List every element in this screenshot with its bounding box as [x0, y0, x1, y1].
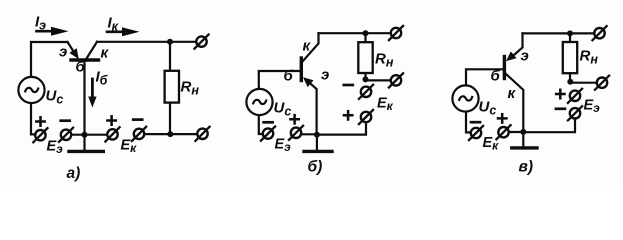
- battery E_к: - terminal: [132, 127, 146, 141]
- battery E_э (b): minus sign: [264, 121, 273, 124]
- transistor VT1: emitter lead (diagonal): [68, 42, 75, 53]
- battery E_э (v): + terminal: [568, 89, 582, 103]
- svg-text:к: к: [101, 45, 110, 62]
- output terminal middle (b): [389, 73, 403, 87]
- transistor VT1: emitter arrowhead (pnp, points to base): [69, 48, 78, 59]
- wire: v, top rail emitter to terminal: [523, 32, 595, 34]
- wire: a, collector to top-right terminal: [97, 41, 196, 43]
- ground symbol (circuit v): [522, 132, 524, 147]
- battery E_к: + terminal: [105, 127, 119, 141]
- junction: top of load resistor: [167, 39, 173, 45]
- svg-text:б): б): [308, 159, 323, 176]
- svg-text:Ек: Ек: [377, 96, 394, 114]
- ground symbol (circuit b): [316, 135, 318, 150]
- svg-text:Еэ: Еэ: [275, 137, 292, 155]
- junction: R_н bottom / output tap (v): [567, 79, 573, 85]
- transistor VT3: collector lead down: [506, 74, 524, 132]
- wire: a, below AC source down to bottom rail: [31, 103, 35, 134]
- resistor R_н: bottom stem: [169, 103, 171, 135]
- transistor VT1: base bar: [71, 58, 99, 61]
- svg-text:Еэ: Еэ: [584, 98, 601, 116]
- battery E_к: plus sign: [107, 116, 115, 124]
- battery E_э: minus sign: [61, 119, 70, 122]
- battery E_э (v): plus sign: [556, 90, 564, 98]
- transistor VT2: emitter lead down (diagonal): [306, 80, 317, 135]
- wire: v, below AC source to E_к: [466, 112, 470, 133]
- svg-text:Rн: Rн: [580, 48, 599, 67]
- svg-text:э: э: [59, 44, 67, 61]
- battery E_э: + terminal: [33, 128, 47, 142]
- AC source U_c (v): circle: [452, 85, 478, 111]
- battery E_к: minus sign: [133, 118, 142, 121]
- svg-text:к: к: [508, 85, 517, 102]
- AC source U_c (b): circle: [246, 89, 272, 115]
- current arrow I_к: [107, 30, 124, 33]
- battery E_э (v): minus sign: [556, 107, 565, 110]
- svg-text:э: э: [321, 67, 329, 84]
- output terminal top (b): [389, 26, 403, 40]
- wire: v, bottom rail junction to E_к: [509, 131, 523, 133]
- battery E_к (v): + terminal: [496, 125, 510, 139]
- transistor VT3: emitter lead up (diagonal): [514, 33, 523, 55]
- junction: collector to bottom rail (v): [520, 129, 526, 135]
- transistor VT1: collector lead (diagonal): [87, 42, 98, 59]
- transistor VT2: collector lead up: [303, 33, 319, 61]
- output terminal middle (v): [595, 76, 609, 90]
- transistor VT3: emitter arrowhead (pnp, points to base): [506, 52, 517, 62]
- wire: v, base lead from source to base: [466, 69, 503, 85]
- svg-text:Ек: Ек: [483, 135, 500, 153]
- output terminal bottom-right: [195, 127, 209, 141]
- current arrow I_б (downward along base lead): [91, 79, 94, 98]
- current arrow I_э: [37, 30, 54, 33]
- junction: bottom of load resistor: [167, 131, 173, 137]
- battery E_к (v): plus sign: [498, 114, 506, 122]
- svg-text:Uс: Uс: [46, 88, 64, 107]
- wire: a, bottom rail E_к to bottom-right terminal: [144, 133, 197, 135]
- ground symbol (circuit a): [83, 135, 85, 150]
- battery E_к (b): - terminal: [359, 85, 373, 99]
- svg-text:б: б: [284, 68, 294, 85]
- wire: v, E_э down to bottom rail and left to junction: [523, 119, 575, 132]
- svg-text:Iб: Iб: [96, 69, 109, 88]
- svg-text:а): а): [67, 165, 81, 182]
- resistor R_н (v): top stem: [569, 33, 571, 42]
- svg-text:Iэ: Iэ: [35, 14, 46, 33]
- AC source U_c (v): sine glyph: [459, 96, 472, 100]
- svg-text:Rн: Rн: [181, 79, 200, 98]
- battery E_э: - terminal: [59, 128, 73, 142]
- resistor R_н: body: [165, 71, 179, 103]
- battery E_к (v): minus sign: [471, 121, 480, 124]
- AC source U_c: sine glyph: [25, 88, 38, 92]
- transistor VT2: emitter arrowhead (pnp): [303, 77, 314, 87]
- output terminal top-right: [194, 35, 208, 49]
- wire: a, left vertical + top horizontal to emitter: [31, 42, 68, 77]
- resistor R_н (v): bottom stem: [569, 73, 571, 82]
- resistor R_н (v): body: [563, 42, 577, 73]
- transistor VT1: base lead vertical: [83, 60, 85, 134]
- junction: top of R_н (v): [567, 30, 573, 36]
- svg-text:Uс: Uс: [479, 99, 497, 118]
- junction: base lead to bottom rail: [82, 132, 88, 138]
- svg-text:Iк: Iк: [108, 15, 119, 34]
- battery E_к (v): - terminal: [469, 126, 483, 140]
- wire: b, base lead from source to base: [259, 71, 300, 89]
- battery E_э (b): plus sign: [290, 115, 298, 123]
- AC source U_c: circle: [18, 77, 44, 103]
- junction: emitter to bottom rail: [314, 132, 320, 138]
- battery E_к (b): minus sign: [344, 84, 353, 87]
- battery E_э: plus sign: [36, 117, 44, 125]
- svg-text:э: э: [521, 48, 529, 65]
- svg-text:б: б: [491, 68, 501, 85]
- resistor R_н (b): bottom stem: [364, 73, 366, 80]
- battery E_э (b): - terminal: [261, 127, 275, 141]
- wire: b, E_к down to bottom rail and left to junction: [317, 123, 366, 135]
- battery E_к (b): + terminal: [359, 110, 373, 124]
- resistor R_н (b): top stem: [364, 33, 366, 42]
- battery E_к (b): plus sign: [344, 111, 352, 119]
- junction: R_н bottom / output tap: [363, 76, 369, 82]
- AC source U_c (b): sine glyph: [253, 100, 266, 104]
- svg-text:Ек: Ек: [121, 138, 138, 156]
- wire: v, tap to middle terminal: [570, 82, 596, 84]
- svg-text:в): в): [519, 159, 534, 176]
- resistor R_н: top stem: [169, 42, 171, 71]
- output terminal top (v): [592, 26, 606, 40]
- battery E_э (b): + terminal: [289, 126, 303, 140]
- battery E_э (v): - terminal: [568, 106, 582, 120]
- transistor VT3: base bar (vertical): [503, 57, 506, 79]
- svg-text:б: б: [76, 59, 86, 76]
- wire: a, bottom rail between E_э and E_к: [71, 134, 107, 136]
- junction: top of R_н: [363, 30, 369, 36]
- transistor VT2: base bar (vertical): [300, 58, 303, 81]
- svg-text:Uс: Uс: [274, 100, 292, 119]
- svg-text:Еэ: Еэ: [47, 139, 64, 157]
- wire: b, bottom rail junction to E_э: [301, 133, 317, 135]
- wire: b, tap to middle terminal: [366, 79, 391, 81]
- svg-text:Rн: Rн: [375, 51, 394, 70]
- resistor R_н (b): body: [358, 42, 372, 73]
- wire: b, below AC source to E_э: [259, 115, 263, 134]
- wire: b, top rail collector to terminal: [319, 32, 391, 34]
